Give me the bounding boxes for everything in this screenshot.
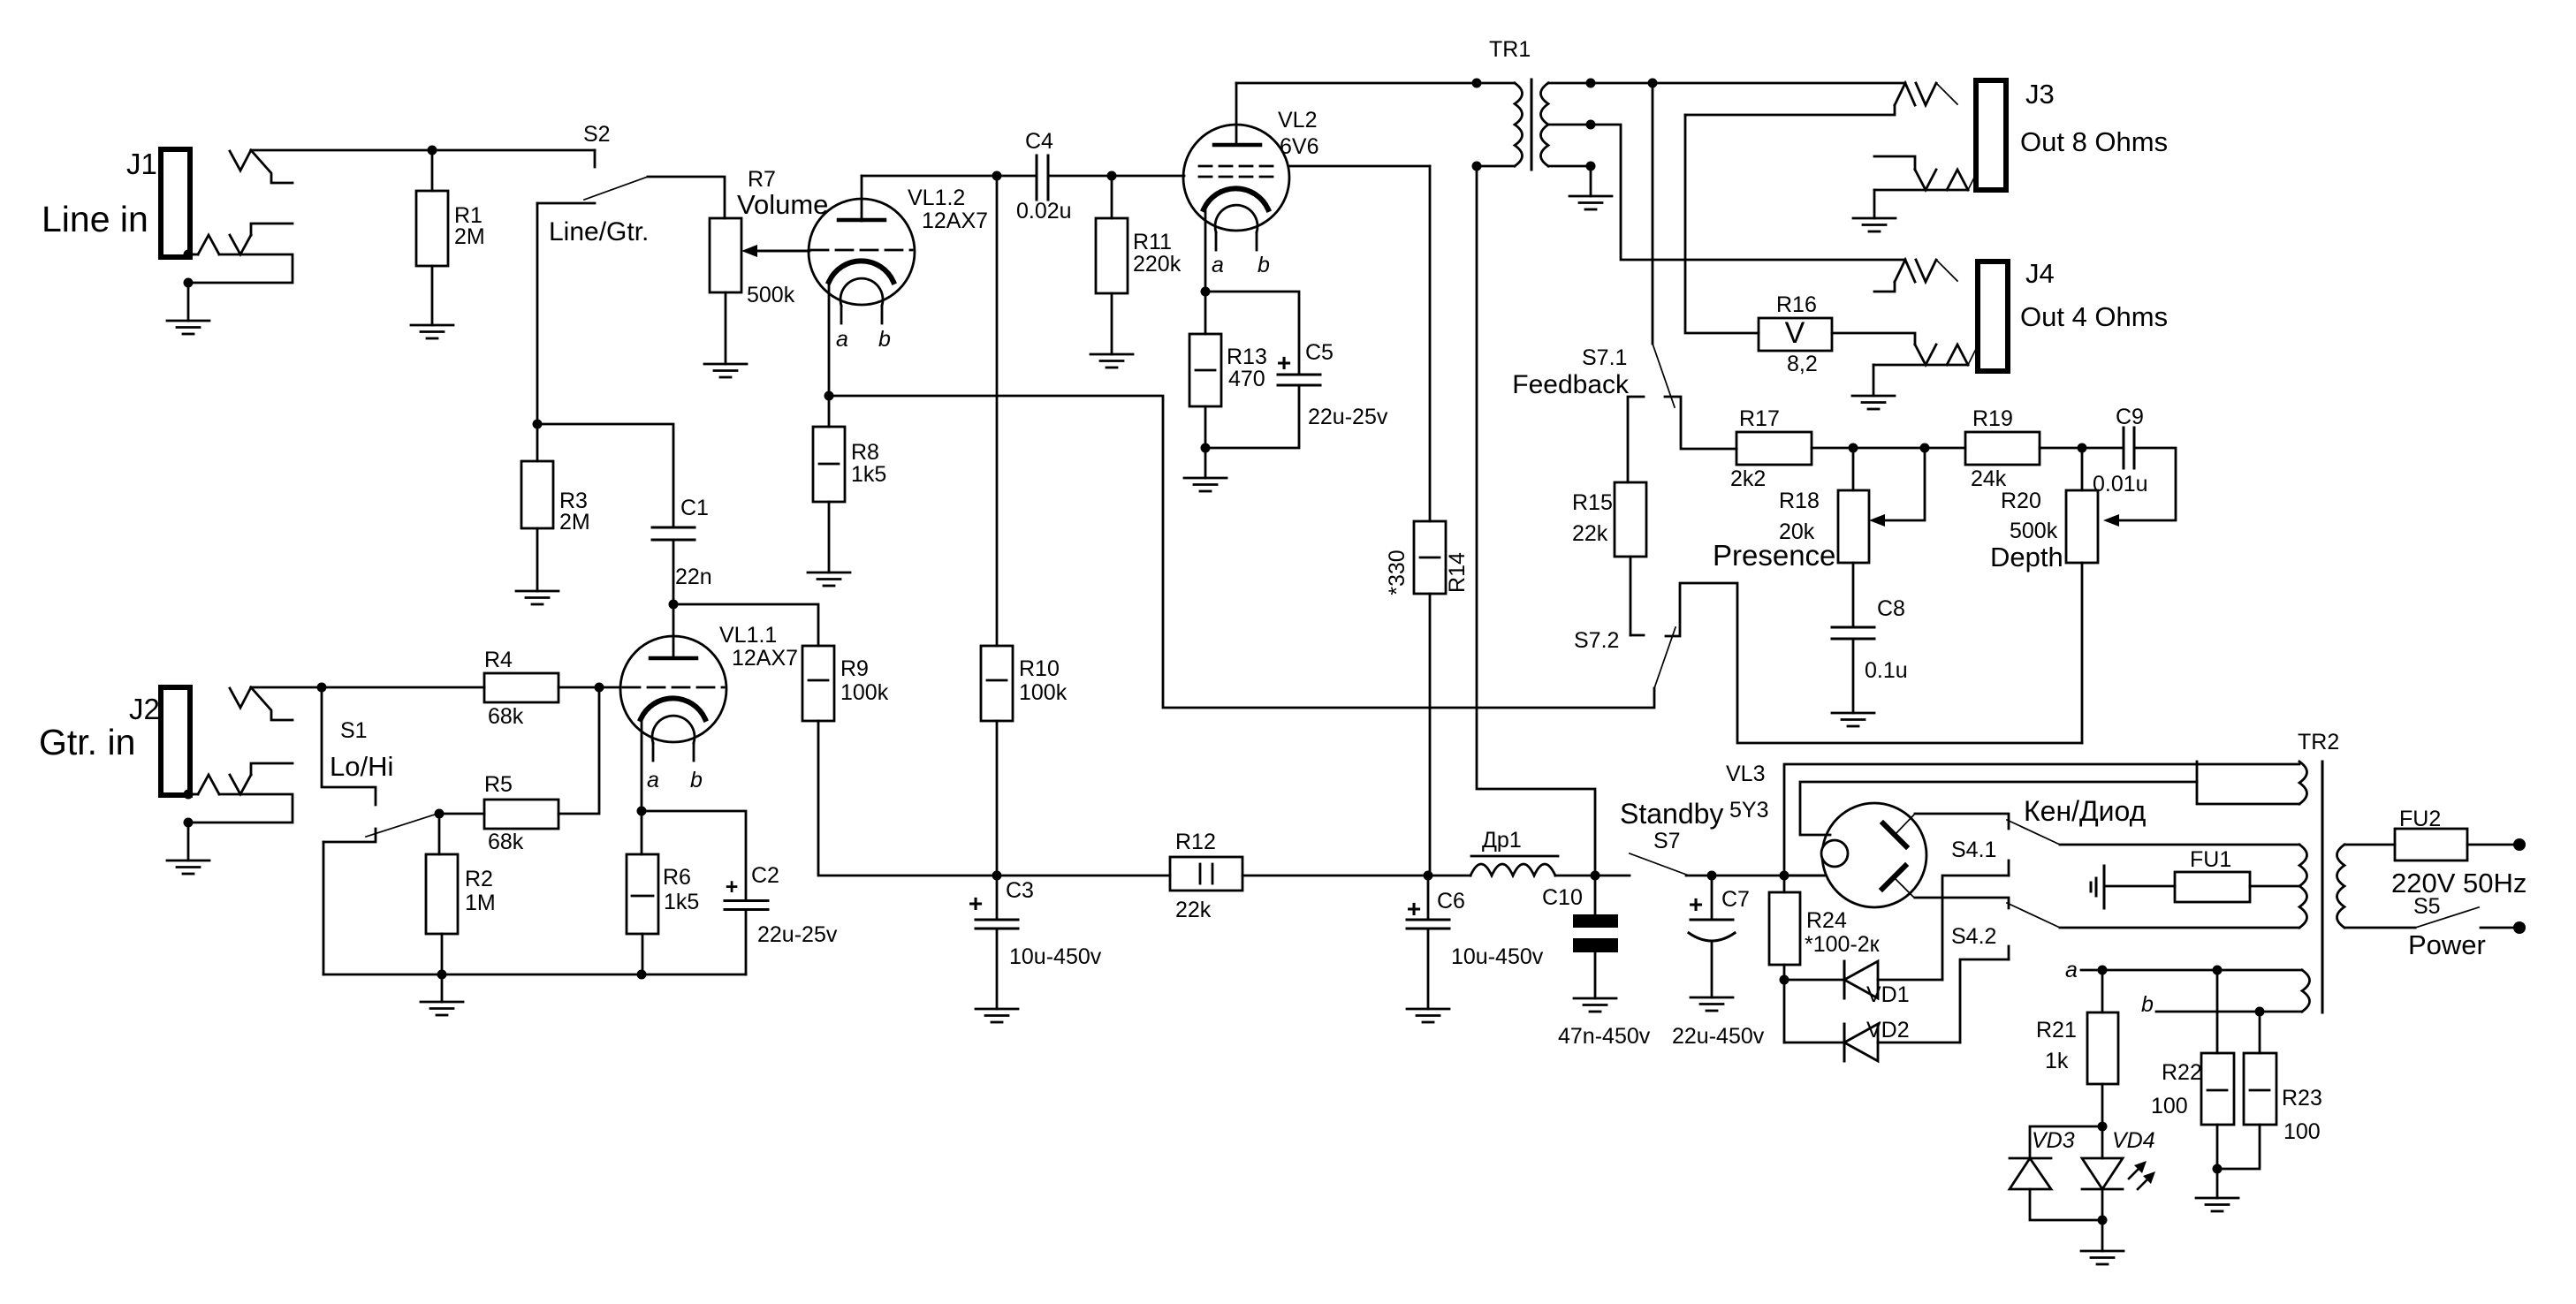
- node R18 top: [1849, 444, 1858, 453]
- svg-text:1k: 1k: [2045, 1049, 2069, 1073]
- jack J1: [42, 148, 190, 257]
- bottom rail: [323, 974, 746, 976]
- svg-text:0.1u: 0.1u: [1865, 658, 1908, 683]
- resistor R17: [1730, 406, 1965, 491]
- ground R8: [808, 502, 850, 586]
- svg-text:R6: R6: [663, 865, 691, 890]
- J1 tip contact: [230, 150, 293, 183]
- svg-text:C2: C2: [751, 863, 779, 888]
- transformer TR2: [2081, 730, 2344, 1012]
- svg-text:Power: Power: [2408, 929, 2486, 960]
- svg-text:Др1: Др1: [1482, 828, 1522, 853]
- svg-text:12AX7: 12AX7: [732, 646, 798, 671]
- node J1 sleeve: [184, 250, 194, 260]
- svg-text:Feedback: Feedback: [1512, 370, 1630, 399]
- capacitor C5: [1205, 292, 1388, 448]
- switch S2: [537, 122, 649, 424]
- chassis ground FU1: [2091, 866, 2104, 908]
- capacitor C4: [1016, 129, 1112, 224]
- switch S4.2: [1915, 898, 2299, 959]
- svg-text:S2: S2: [583, 122, 611, 147]
- ground J1: [167, 283, 209, 334]
- svg-text:J1: J1: [126, 148, 157, 180]
- ground J2: [167, 823, 209, 874]
- capacitor C3: [969, 878, 1102, 1009]
- svg-text:S4.2: S4.2: [1951, 924, 1996, 949]
- svg-text:VL2: VL2: [1278, 108, 1317, 133]
- svg-text:+: +: [1277, 349, 1291, 376]
- node VD3/VD4 top: [2098, 1122, 2108, 1132]
- svg-text:R10: R10: [1019, 656, 1060, 681]
- svg-text:R4: R4: [484, 648, 513, 672]
- svg-text:Presence: Presence: [1713, 539, 1835, 572]
- svg-text:R9: R9: [840, 656, 869, 681]
- svg-text:100: 100: [2151, 1094, 2188, 1118]
- ground R13/C5: [1184, 478, 1227, 491]
- svg-text:b: b: [2141, 992, 2154, 1017]
- J3 ring contact: [1874, 156, 1978, 190]
- svg-text:+: +: [969, 890, 983, 917]
- J4 ring contact: [1832, 333, 1978, 365]
- ground J3: [1853, 190, 1896, 231]
- ground C10: [1574, 998, 1616, 1012]
- fuse FU2: [2344, 807, 2527, 898]
- svg-text:22u-25v: 22u-25v: [757, 922, 838, 947]
- svg-text:a: a: [2065, 958, 2078, 982]
- node R24 top: [1780, 871, 1790, 881]
- node cathode VL1.1: [637, 807, 647, 816]
- svg-text:S7.1: S7.1: [1582, 345, 1627, 370]
- node A: [428, 146, 437, 155]
- switch S7 Standby: [1620, 798, 1826, 876]
- capacitor C8: [1832, 563, 1908, 713]
- svg-text:Out 4 Ohms: Out 4 Ohms: [2020, 301, 2168, 332]
- svg-text:R2: R2: [465, 867, 493, 891]
- svg-text:100k: 100k: [1019, 680, 1068, 705]
- resistor R6: [627, 811, 699, 974]
- ground C7: [1691, 997, 1733, 1011]
- svg-text:TR1: TR1: [1489, 37, 1531, 62]
- svg-text:VL3: VL3: [1726, 762, 1765, 786]
- switch S7.1: [1512, 83, 1736, 482]
- svg-text:1k5: 1k5: [664, 890, 699, 914]
- svg-text:VD4: VD4: [2112, 1128, 2155, 1153]
- svg-text:22u-450v: 22u-450v: [1672, 1024, 1765, 1049]
- svg-text:TR2: TR2: [2298, 730, 2339, 754]
- svg-text:Кен/Диод: Кен/Диод: [2024, 795, 2147, 827]
- wire J1 tip to S2: [251, 149, 595, 152]
- svg-text:a: a: [647, 768, 659, 792]
- wire C1 node to R9: [673, 604, 818, 646]
- wire TR1 primary bottom B+ drop: [1477, 166, 1595, 876]
- potentiometer R18 Presence: [1713, 448, 1925, 572]
- svg-text:R12: R12: [1175, 830, 1216, 854]
- svg-text:VD1: VD1: [1866, 982, 1910, 1007]
- svg-text:R8: R8: [851, 440, 879, 465]
- J2 tip contact: [230, 687, 293, 720]
- svg-text:500k: 500k: [747, 283, 795, 307]
- svg-text:Lo/Hi: Lo/Hi: [330, 751, 393, 782]
- node C10: [1591, 871, 1600, 881]
- svg-text:2M: 2M: [454, 224, 485, 249]
- capacitor C9: [2093, 405, 2176, 527]
- svg-text:R19: R19: [1972, 406, 2013, 431]
- svg-text:6V6: 6V6: [1280, 134, 1318, 159]
- diode VD1: [1784, 876, 2009, 1007]
- capacitor C7: [1672, 876, 1765, 1049]
- svg-text:S7.2: S7.2: [1574, 628, 1619, 653]
- svg-text:S4.1: S4.1: [1951, 838, 1996, 862]
- svg-text:R18: R18: [1779, 489, 1820, 513]
- svg-text:Depth: Depth: [1990, 542, 2063, 572]
- J1 ring contact: [188, 224, 293, 283]
- svg-text:+: +: [726, 875, 739, 899]
- resistor R12: [997, 830, 1428, 922]
- rectifier tube VL3: [1726, 762, 2299, 907]
- wire VL2 anode to TR1: [1236, 82, 1515, 85]
- svg-text:VL1.1: VL1.1: [719, 623, 777, 648]
- resistor R10: [981, 176, 1068, 920]
- node VL1.1 grid: [595, 683, 604, 693]
- ground J4: [1852, 365, 1895, 409]
- node S1 top: [317, 683, 327, 693]
- ground R22/R23: [2196, 1169, 2238, 1211]
- svg-text:1k5: 1k5: [851, 462, 886, 487]
- resistor R21: [2036, 970, 2118, 1126]
- triode VL1.1: [620, 604, 798, 811]
- svg-text:C5: C5: [1305, 340, 1334, 365]
- J3 tip contact: [1685, 83, 1957, 115]
- svg-text:Line/Gtr.: Line/Gtr.: [549, 217, 649, 246]
- svg-text:68k: 68k: [488, 830, 524, 854]
- svg-text:C8: C8: [1877, 596, 1905, 621]
- svg-text:C10: C10: [1542, 885, 1583, 910]
- switch S7.2: [1574, 583, 2082, 743]
- svg-text:24k: 24k: [1971, 466, 2007, 491]
- capacitor C10: [1542, 876, 1651, 1049]
- ground C6: [1407, 1009, 1449, 1022]
- capacitor C6: [1407, 876, 1544, 1009]
- svg-text:0.02u: 0.02u: [1016, 199, 1072, 224]
- svg-text:S5: S5: [2413, 894, 2441, 919]
- svg-text:*330: *330: [1385, 550, 1410, 595]
- svg-text:R22: R22: [2162, 1060, 2202, 1085]
- wire TR1 top tap to J3: [1591, 82, 1905, 85]
- svg-text:VL1.2: VL1.2: [908, 186, 965, 210]
- LED VD4: [2082, 1126, 2155, 1220]
- transformer TR1: [1472, 37, 1596, 171]
- node R18 wiper: [1920, 444, 1930, 453]
- svg-text:R24: R24: [1806, 908, 1847, 933]
- ground R1: [411, 266, 453, 338]
- node VD1 anode: [1780, 975, 1790, 985]
- ground rail: [421, 974, 463, 1015]
- svg-text:68k: 68k: [488, 704, 524, 729]
- svg-text:C7: C7: [1721, 887, 1750, 912]
- resistor R4: [484, 648, 559, 729]
- svg-text:J3: J3: [2025, 79, 2055, 110]
- node VL1.2 cathode: [824, 391, 834, 401]
- jack J3: [1976, 79, 2168, 190]
- feedback wire cathode row: [829, 396, 1654, 708]
- svg-text:22u-25v: 22u-25v: [1308, 405, 1388, 429]
- jack J4: [1978, 258, 2168, 371]
- svg-text:J4: J4: [2025, 258, 2055, 289]
- svg-text:22n: 22n: [675, 565, 712, 589]
- svg-text:22k: 22k: [1572, 521, 1608, 546]
- svg-text:470: 470: [1228, 367, 1265, 391]
- svg-text:0.01u: 0.01u: [2093, 472, 2148, 497]
- fuse FU1: [2105, 847, 2250, 902]
- svg-text:S7: S7: [1653, 829, 1681, 853]
- diode VD2: [1784, 959, 2009, 1061]
- resistor R22: [2151, 970, 2234, 1169]
- svg-text:220k: 220k: [1133, 252, 1182, 277]
- resistor R19: [1965, 406, 2124, 491]
- resistor R3: [521, 424, 590, 534]
- ground C3: [976, 1009, 1018, 1022]
- svg-text:500k: 500k: [2010, 519, 2058, 543]
- resistor R1: [416, 150, 485, 266]
- node C3: [992, 871, 1002, 881]
- svg-text:R17: R17: [1739, 406, 1780, 431]
- node VD3/VD4 bottom: [2098, 1216, 2108, 1225]
- wire S2 to R7: [648, 177, 725, 218]
- svg-text:R14: R14: [1445, 552, 1470, 593]
- resistor R16: [1685, 115, 1832, 376]
- node VL2 cathode: [1201, 287, 1211, 297]
- heater taps a/b: [2065, 958, 2265, 1017]
- node R3 top: [533, 420, 543, 429]
- svg-text:FU1: FU1: [2190, 847, 2231, 872]
- node R22/R23 bottom: [2213, 1164, 2223, 1174]
- svg-text:220V 50Hz: 220V 50Hz: [2391, 868, 2527, 898]
- resistor R11: [1096, 176, 1182, 293]
- resistor R2: [426, 814, 496, 974]
- svg-text:100k: 100k: [840, 680, 889, 705]
- node R13 bottom: [1201, 444, 1211, 453]
- inductor Dr1: [1428, 828, 1630, 876]
- ground VD4: [2081, 1220, 2124, 1264]
- svg-text:Gtr. in: Gtr. in: [39, 722, 135, 762]
- switch S5 Power: [2344, 894, 2526, 960]
- svg-text:*100-2к: *100-2к: [1805, 932, 1881, 957]
- node S1/R5/R2: [435, 809, 445, 819]
- node R11 top: [1107, 171, 1117, 181]
- svg-text:C1: C1: [680, 496, 709, 520]
- svg-text:12AX7: 12AX7: [922, 208, 988, 233]
- ground TR1 secondary: [1569, 166, 1612, 209]
- svg-text:2M: 2M: [559, 510, 590, 534]
- capacitor C2: [642, 811, 838, 974]
- svg-text:+: +: [1407, 895, 1421, 922]
- svg-text:C6: C6: [1437, 889, 1465, 914]
- J2 ring contact: [188, 763, 293, 823]
- svg-text:C9: C9: [2116, 405, 2144, 429]
- resistor R5: [439, 687, 599, 854]
- svg-text:C4: C4: [1025, 129, 1053, 154]
- resistor R14: [1385, 166, 1470, 876]
- svg-text:b: b: [690, 768, 703, 792]
- wire TR1 middle tap to J4: [1591, 125, 1905, 260]
- node C1 bottom: [669, 600, 679, 610]
- svg-text:b: b: [1258, 253, 1270, 277]
- resistor R15: [1572, 482, 1646, 635]
- svg-text:b: b: [878, 327, 891, 352]
- resistor R8: [813, 396, 886, 502]
- svg-text:S1: S1: [340, 718, 368, 743]
- resistor R13: [1189, 292, 1267, 478]
- capacitor C1: [537, 424, 712, 604]
- pentode VL2: [1112, 83, 1430, 292]
- svg-text:VD3: VD3: [2032, 1128, 2075, 1153]
- switch S1: [322, 687, 435, 974]
- ground R3: [516, 528, 559, 604]
- svg-text:R23: R23: [2282, 1086, 2322, 1111]
- svg-text:8,2: 8,2: [1787, 352, 1818, 376]
- svg-text:100: 100: [2283, 1119, 2321, 1144]
- svg-text:V: V: [1785, 316, 1805, 350]
- node C6: [1424, 871, 1433, 881]
- resistor R23: [2217, 1012, 2322, 1169]
- node C7: [1707, 871, 1717, 881]
- svg-text:J2: J2: [129, 693, 160, 725]
- svg-text:a: a: [1212, 253, 1224, 277]
- ground R11: [1090, 293, 1133, 368]
- diode VD3: [2010, 1126, 2102, 1220]
- svg-text:R11: R11: [1133, 230, 1172, 254]
- svg-text:R15: R15: [1572, 490, 1613, 515]
- svg-text:R21: R21: [2036, 1018, 2077, 1042]
- svg-text:22k: 22k: [1175, 898, 1212, 922]
- svg-text:R7: R7: [748, 167, 776, 192]
- svg-text:47n-450v: 47n-450v: [1558, 1024, 1651, 1049]
- svg-text:a: a: [836, 327, 848, 352]
- svg-text:R20: R20: [2001, 489, 2041, 513]
- wire J2 tip: [251, 686, 484, 689]
- jack J2: [39, 687, 190, 795]
- svg-text:+: +: [1689, 891, 1703, 918]
- svg-text:Line in: Line in: [42, 199, 148, 239]
- triode VL1.2: [756, 176, 988, 396]
- svg-text:2k2: 2k2: [1730, 466, 1766, 491]
- svg-text:Volume: Volume: [737, 189, 828, 220]
- ground C8: [1832, 713, 1874, 726]
- svg-text:Out 8 Ohms: Out 8 Ohms: [2020, 126, 2168, 157]
- svg-text:R13: R13: [1227, 345, 1267, 369]
- svg-text:10u-450v: 10u-450v: [1451, 944, 1544, 969]
- svg-text:5Y3: 5Y3: [1729, 798, 1768, 823]
- resistor R9: [802, 646, 997, 876]
- switch S4.1: [1915, 814, 2299, 876]
- potentiometer R7 Volume: [710, 167, 828, 307]
- J4 tip contact: [1874, 260, 1957, 292]
- potentiometer R20 Depth: [1990, 448, 2098, 743]
- svg-text:R16: R16: [1776, 292, 1817, 317]
- resistor R24: [1769, 876, 1881, 1042]
- ground R7: [704, 292, 747, 377]
- svg-text:VD2: VD2: [1866, 1018, 1910, 1042]
- wire VL1.2 anode to C4: [862, 175, 1037, 178]
- svg-text:1M: 1M: [465, 891, 496, 915]
- svg-text:C3: C3: [1006, 878, 1034, 903]
- svg-text:10u-450v: 10u-450v: [1009, 944, 1102, 969]
- svg-text:Standby: Standby: [1620, 798, 1723, 830]
- wire R4 right to node: [559, 686, 620, 689]
- svg-text:R5: R5: [484, 772, 513, 797]
